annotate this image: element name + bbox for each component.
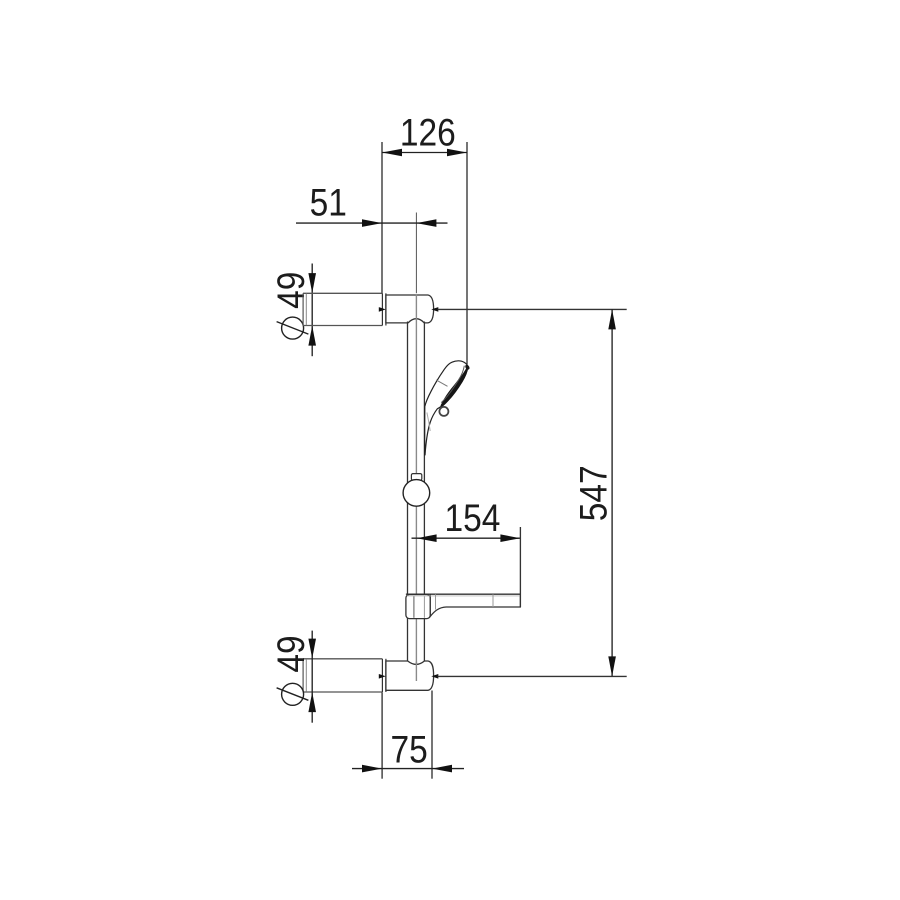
rail centre line xyxy=(415,295,417,681)
label 154 xyxy=(444,497,500,540)
label 51 xyxy=(310,182,347,225)
svg-text:49: 49 xyxy=(270,635,313,672)
soap dish clamp xyxy=(406,595,430,619)
rail centre line inside bottom bracket xyxy=(415,662,417,682)
wall bracket top: mounting cylinder xyxy=(303,293,382,325)
diameter symbol bottom xyxy=(277,683,309,705)
wall bracket top: body holding rail xyxy=(386,295,434,323)
svg-text:75: 75 xyxy=(390,728,427,771)
shower head inner seam line xyxy=(441,366,464,403)
dimension line 154 xyxy=(412,534,521,542)
dimension 49 top: dimension line xyxy=(308,264,316,357)
dimension 75 extension line left xyxy=(381,692,383,779)
dimension 154 extension line right xyxy=(519,527,521,607)
wall bracket bottom: mounting cylinder xyxy=(303,659,382,692)
dimension 75 extension line right xyxy=(431,691,433,779)
hand shower head xyxy=(425,361,468,455)
dimension line 547 xyxy=(608,309,616,676)
dimension line 75 xyxy=(352,765,464,773)
tiny arrows on bottom bracket centreline xyxy=(379,674,439,679)
slider knob xyxy=(403,480,430,507)
dimension 126 extension line right (head face) xyxy=(466,142,468,364)
svg-text:51: 51 xyxy=(310,182,347,225)
label 75 xyxy=(390,728,427,771)
extension line 547 top xyxy=(438,308,627,310)
wall bracket bottom: flange xyxy=(382,659,386,692)
slider holder button xyxy=(411,474,421,481)
handle shading line xyxy=(427,413,430,432)
shower head hang ring xyxy=(439,407,448,416)
svg-text:547: 547 xyxy=(573,465,616,521)
dimension 51 extension line right (rail centre) xyxy=(415,213,417,294)
shower head spray face dark rim xyxy=(441,364,470,406)
shower head cross seam xyxy=(436,380,447,386)
svg-text:126: 126 xyxy=(400,111,456,154)
svg-text:154: 154 xyxy=(444,497,500,540)
soap dish tray xyxy=(406,594,520,616)
slide rail xyxy=(408,322,425,662)
label 126 xyxy=(400,111,456,154)
diameter symbol top xyxy=(277,317,309,339)
wall bracket top: flange xyxy=(382,293,386,325)
dimension 49 bottom: dimension line xyxy=(308,631,316,723)
tiny arrows on top bracket centreline xyxy=(379,307,439,312)
label 547 (rotated) xyxy=(573,465,616,521)
dimension 126 extension line left (wall plane) xyxy=(381,142,383,293)
dimension line 126 xyxy=(382,149,467,157)
label 49 bottom (rotated) xyxy=(270,635,313,672)
label 49 top (rotated) xyxy=(270,272,313,309)
extension line 547 bottom xyxy=(438,675,627,677)
wall bracket bottom: body holding rail xyxy=(386,661,434,690)
dimension line 51 xyxy=(296,219,448,227)
